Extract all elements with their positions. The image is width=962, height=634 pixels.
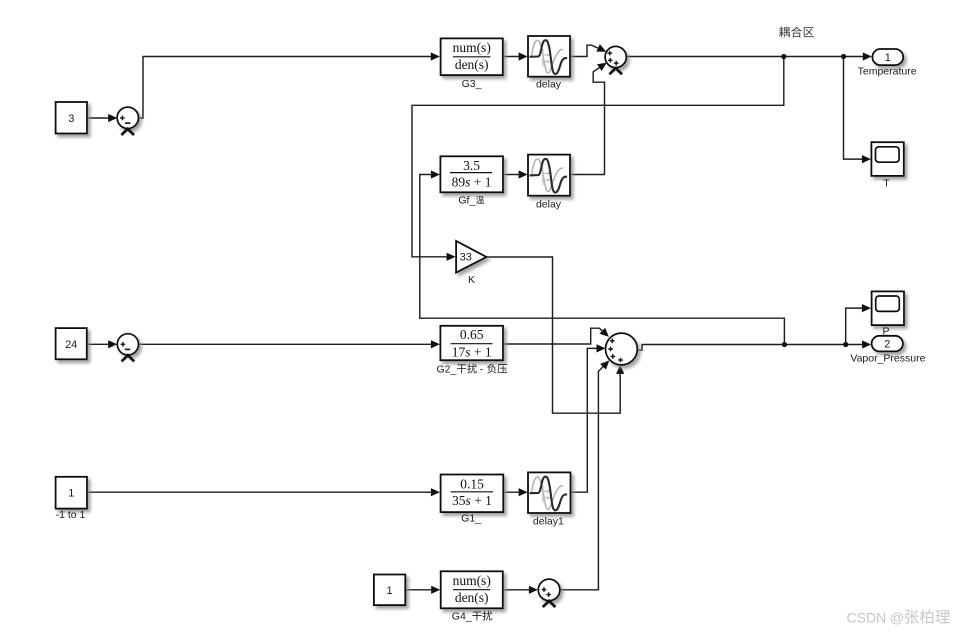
- svg-text:0.15: 0.15: [460, 476, 484, 491]
- svg-text:Gf_: Gf_: [458, 195, 475, 207]
- wire sum S2 to outport Temperature: [626, 56, 867, 58]
- label 耦合区: [779, 27, 814, 38]
- arrowhead into sum S5 port1: [600, 328, 612, 340]
- sum S4: [538, 579, 560, 607]
- svg-text:CSDN @: CSDN @: [847, 610, 905, 626]
- svg-text:delay: delay: [536, 79, 562, 91]
- transport delay 2: [528, 155, 570, 211]
- wire const1 to G1_: [87, 491, 436, 493]
- wire: [87, 45, 867, 590]
- svg-text:35s + 1: 35s + 1: [452, 493, 492, 508]
- arrowhead into sum S3: [108, 340, 117, 348]
- arrowhead into sum S4: [529, 586, 538, 594]
- svg-text:K: K: [468, 274, 475, 286]
- svg-text:89s + 1: 89s + 1: [452, 175, 492, 190]
- arrowhead into delay: [519, 52, 528, 60]
- node temperature junction 2: [841, 54, 846, 59]
- arrowhead into gain K: [447, 253, 456, 261]
- sum S1: [117, 107, 138, 135]
- sum S2: [605, 46, 626, 74]
- wire G4 to sum S4: [503, 589, 534, 591]
- transport delay (top): [528, 36, 570, 91]
- wire G2 to sum S5 port1: [503, 328, 606, 344]
- arrowhead into sum S2 upper port: [596, 44, 608, 55]
- arrowhead into sum S5 port3: [600, 358, 612, 370]
- wire sum S5 to outport Vapor_Pressure: [637, 345, 866, 351]
- scope T: [871, 142, 903, 189]
- transfer function Gf_温: [440, 156, 503, 206]
- svg-text:1: 1: [68, 488, 74, 500]
- constant block 1: [56, 477, 87, 521]
- transfer function G2: [437, 326, 508, 376]
- arrowhead into G1_: [431, 488, 440, 496]
- arrowhead into delay1: [519, 488, 528, 496]
- svg-text:3: 3: [68, 113, 74, 125]
- arrowhead into sum S5 bottom port: [616, 365, 624, 374]
- arrowhead into G4: [431, 586, 440, 594]
- gain K: [456, 241, 486, 286]
- svg-text:33: 33: [460, 252, 472, 264]
- outport 2 Vapor_Pressure: [850, 336, 925, 365]
- svg-text:P: P: [882, 325, 889, 337]
- arrowhead into delay2: [519, 170, 528, 178]
- node vapor junction 2: [843, 342, 848, 347]
- transfer function G1_: [441, 475, 504, 525]
- junction dots: [781, 54, 848, 347]
- wire delay1 to sum S5 port2: [571, 348, 602, 492]
- svg-text:num(s): num(s): [453, 573, 491, 588]
- svg-text:Vapor_Pressure: Vapor_Pressure: [850, 353, 925, 365]
- svg-text:delay1: delay1: [533, 515, 564, 527]
- svg-text:3.5: 3.5: [463, 158, 480, 173]
- svg-text:delay: delay: [536, 198, 562, 210]
- arrowhead into sum S5 port2: [597, 344, 606, 352]
- svg-text:1: 1: [387, 585, 393, 597]
- wire sum S3 to G2: [139, 343, 436, 345]
- arrowhead into sum S1: [108, 114, 117, 122]
- svg-text:0.65: 0.65: [460, 327, 484, 342]
- wire Gf to delay2: [503, 174, 523, 176]
- arrowhead into outport Vapor_Pressure: [862, 340, 871, 348]
- arrowhead into scope T: [862, 155, 871, 163]
- constant block 1 (G4 row): [374, 575, 405, 606]
- svg-text:17s + 1: 17s + 1: [452, 344, 492, 359]
- svg-text:Temperature: Temperature: [858, 66, 917, 78]
- node vapor junction 1: [782, 342, 787, 347]
- svg-text:G2_: G2_: [437, 364, 457, 376]
- svg-text:den(s): den(s): [455, 57, 489, 72]
- arrowhead into G2: [431, 340, 440, 348]
- scope P: [872, 291, 904, 337]
- svg-text:-1 to 1: -1 to 1: [56, 509, 86, 521]
- sum S3: [117, 334, 138, 362]
- node temperature junction 1: [781, 54, 786, 59]
- wire gain K to sum S5 bottom: [486, 257, 620, 413]
- wire G1_ to delay1: [503, 491, 523, 493]
- arrowhead into sum S2 lower port: [597, 59, 609, 71]
- arrowheads: [108, 44, 872, 594]
- wire delay2 to sum S2 lower port: [570, 66, 605, 175]
- arrowhead into scope P: [862, 304, 871, 312]
- wire G3_ to delay: [503, 56, 523, 58]
- svg-text:24: 24: [65, 339, 77, 351]
- wire const3 to sum S1: [87, 117, 112, 119]
- svg-text:T: T: [883, 177, 890, 189]
- wire const1b to G4: [405, 589, 436, 591]
- transfer function G3_: [441, 38, 503, 90]
- wire vapor feedback to Gf: [420, 175, 785, 345]
- arrowhead into G3_: [431, 52, 440, 60]
- arrowhead into Gf: [431, 170, 440, 178]
- wire sum S4 to sum S5 port3: [560, 364, 606, 590]
- svg-text:den(s): den(s): [455, 590, 489, 605]
- wire const24 to sum S3: [87, 343, 113, 345]
- wire branch to scope P: [846, 308, 866, 344]
- sum S5 (big): [606, 333, 638, 365]
- svg-text:1: 1: [885, 52, 891, 64]
- svg-text:G1_: G1_: [461, 513, 481, 525]
- constant block 24: [56, 328, 87, 359]
- wire temperature feedback to gain K: [412, 57, 784, 257]
- svg-text:G4_: G4_: [452, 611, 472, 623]
- wire delay to sum S2 upper port: [570, 45, 605, 56]
- svg-text:num(s): num(s): [453, 40, 491, 55]
- svg-text:2: 2: [884, 339, 890, 351]
- svg-text:G3_: G3_: [462, 78, 482, 90]
- constant block 3: [56, 102, 87, 134]
- outport 1 Temperature: [858, 49, 917, 78]
- svg-text:-: -: [480, 364, 484, 376]
- arrowhead into outport Temperature: [863, 52, 872, 60]
- wire branch to scope T: [844, 57, 867, 160]
- wire sum S1 to G3_: [139, 57, 436, 119]
- transfer function G4_干扰: [441, 571, 503, 622]
- transport delay1: [528, 472, 571, 527]
